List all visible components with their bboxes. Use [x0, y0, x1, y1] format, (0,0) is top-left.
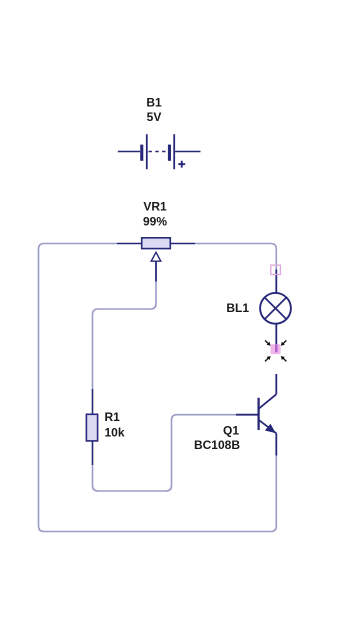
- svg-text:VR1: VR1: [143, 200, 167, 214]
- svg-text:BL1: BL1: [226, 301, 249, 315]
- battery cell1 short plate: [140, 145, 143, 161]
- light arrow top-left: [265, 340, 271, 345]
- VR1 body: [142, 238, 171, 249]
- wire R1 bottom to Q1 base: [93, 415, 237, 491]
- light arrow bottom-left: [265, 356, 271, 361]
- pin stripe inside square: [275, 344, 278, 352]
- VR1 wiper arrow: [151, 252, 161, 261]
- resistor R1: [86, 389, 97, 465]
- Q1 emitter diagonal: [259, 420, 277, 434]
- Q1 base bar: [257, 398, 259, 430]
- battery right lead: [175, 151, 200, 153]
- svg-text:99%: 99%: [143, 215, 167, 229]
- wire VR1 wiper to R1 top: [93, 282, 157, 390]
- R1 bottom pin: [92, 441, 94, 465]
- battery plus sign: [178, 163, 185, 165]
- svg-text:5V: 5V: [147, 110, 162, 124]
- BL1 top pin: [275, 270, 277, 294]
- pink pin-highlight square (filled): [271, 344, 281, 354]
- VR1 wiper stub: [155, 261, 157, 281]
- battery left lead: [118, 151, 140, 153]
- light arrow top-right: [281, 340, 287, 345]
- VR1 right pin: [170, 243, 195, 245]
- BL1 circle: [260, 293, 291, 324]
- pink pin-highlight square (open): [271, 265, 281, 274]
- wire outer loop (VR1 left - down - bottom - up to Q1 emitter): [39, 244, 277, 532]
- lamp BL1: [260, 270, 291, 346]
- svg-text:Q1: Q1: [223, 423, 239, 437]
- Q1 emitter arrowhead: [265, 424, 276, 433]
- battery cell2 short plate: [168, 145, 171, 161]
- BL1 cross: [264, 297, 287, 320]
- battery B1: [118, 134, 201, 169]
- VR1 left pin: [117, 243, 142, 245]
- svg-text:R1: R1: [105, 410, 121, 424]
- R1 top pin: [92, 389, 94, 414]
- Q1 emitter pin: [275, 433, 277, 455]
- svg-text:B1: B1: [146, 96, 162, 110]
- battery cell2 long plate: [173, 134, 175, 169]
- svg-text:10k: 10k: [105, 426, 125, 440]
- battery cell1 long plate: [146, 134, 148, 169]
- transistor Q1: [236, 374, 276, 456]
- BL1 bottom pin: [275, 324, 277, 345]
- svg-text:BC108B: BC108B: [194, 438, 240, 452]
- potentiometer VR1: [117, 238, 195, 282]
- light arrow bottom-right: [281, 356, 287, 361]
- Q1 collector diagonal: [259, 394, 277, 409]
- R1 body: [86, 414, 97, 441]
- Q1 base pin: [236, 414, 259, 416]
- battery dashed link: [149, 151, 168, 153]
- Q1 collector pin: [275, 374, 277, 394]
- wire VR1 right terminal to lamp: [195, 244, 276, 270]
